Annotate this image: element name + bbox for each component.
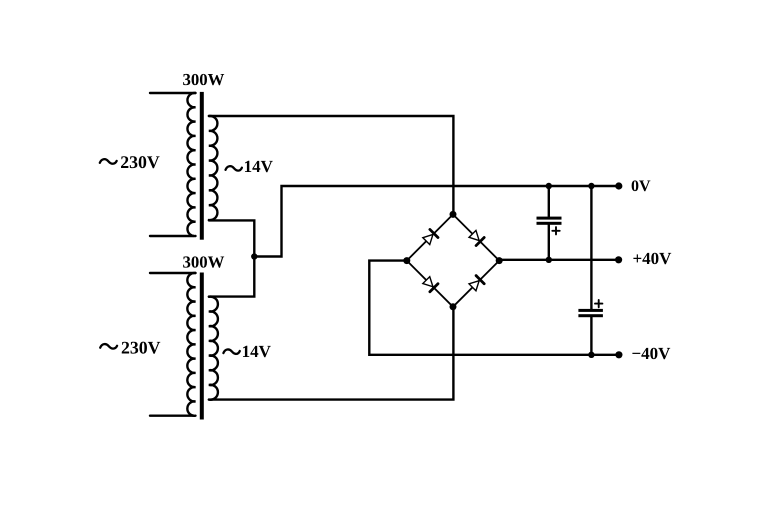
transformer T2 core — [200, 273, 204, 420]
diode D4 cathode bar (bottom node to right node) — [476, 276, 484, 284]
node 0V rail cap C2 junction — [588, 183, 594, 189]
wire T1 primary top lead — [150, 92, 196, 94]
transformer T1 core — [200, 92, 204, 240]
diode D3 cathode bar (left node to bottom node) — [430, 284, 438, 292]
transformer T1 secondary winding — [209, 116, 218, 220]
svg-text:−40V: −40V — [632, 344, 672, 363]
tilde T1 secondary — [226, 166, 242, 170]
node bridge right — [496, 257, 503, 264]
terminal +40V — [615, 256, 622, 263]
capacitor C1 top lead — [548, 186, 550, 217]
diode D2 cathode bar (top node to right node) — [476, 238, 484, 246]
diode D3 anode triangle — [423, 277, 433, 287]
capacitor C2 top lead — [590, 186, 592, 309]
svg-text:0V: 0V — [631, 178, 651, 195]
node 0V rail cap C1 junction — [546, 183, 552, 189]
capacitor C1 plates — [537, 217, 562, 220]
diode D2 anode triangle — [469, 230, 479, 240]
transformer T2 primary winding — [187, 273, 195, 416]
capacitor C1 bottom lead — [548, 225, 550, 260]
capacitor C2 plates — [578, 309, 603, 312]
terminal 0V — [615, 182, 622, 189]
capacitor C1 plus sign — [552, 227, 559, 234]
svg-text:14V: 14V — [242, 342, 272, 361]
capacitor C2 plus sign — [595, 300, 602, 307]
wire T1 primary bottom lead — [150, 235, 193, 237]
wire T2 primary top lead — [150, 272, 196, 274]
node bridge top — [450, 211, 457, 218]
node bridge left — [403, 257, 410, 264]
terminal -40V — [615, 351, 622, 358]
node -40V rail cap C2 junction — [588, 352, 594, 358]
wire junction to 0V rail — [254, 186, 619, 257]
transformer T2 secondary winding — [209, 297, 218, 400]
svg-text:+40V: +40V — [633, 249, 673, 268]
svg-text:300W: 300W — [183, 252, 225, 271]
node bridge bottom — [450, 303, 457, 310]
wire T1 secondary top lead to bridge top — [209, 116, 454, 214]
bridge rectifier diamond wires — [407, 214, 499, 306]
node secondaries junction — [251, 253, 257, 259]
transformer T1 primary winding — [187, 93, 195, 236]
svg-text:14V: 14V — [244, 157, 274, 176]
svg-text:230V: 230V — [121, 337, 161, 357]
diode D4 anode triangle — [469, 281, 479, 291]
wire +40V rail — [499, 259, 618, 261]
tilde T2 secondary — [223, 349, 239, 353]
capacitor C2 bottom lead — [590, 317, 592, 355]
svg-text:230V: 230V — [120, 152, 160, 172]
tilde T1 primary — [100, 159, 117, 164]
wire T1 secondary bottom lead — [209, 220, 254, 296]
wire bridge left node to -40V rail — [369, 261, 619, 355]
tilde T2 primary — [100, 344, 117, 349]
diode D1 anode triangle — [423, 234, 433, 244]
node +40V rail cap C1 junction — [546, 257, 552, 263]
svg-text:300W: 300W — [183, 70, 225, 89]
wire T2 secondary bottom lead to bridge bottom — [209, 307, 454, 400]
wire T2 primary bottom lead — [150, 415, 193, 417]
diode D1 cathode bar (left node to top node) — [430, 229, 438, 237]
